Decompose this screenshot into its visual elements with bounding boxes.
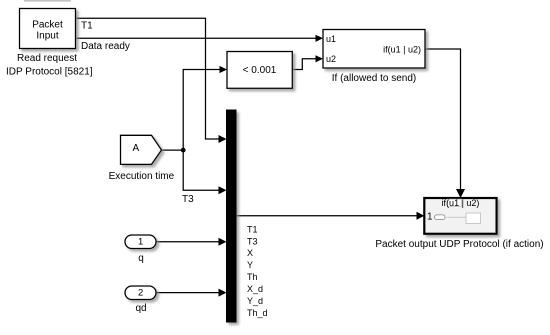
svg-text:Packet output UDP Protocol (if: Packet output UDP Protocol (if action) [375,239,543,250]
svg-text:Y_d: Y_d [247,296,263,306]
svg-text:if(u1 | u2): if(u1 | u2) [442,198,480,208]
svg-text:T3: T3 [247,236,258,246]
svg-text:Execution time: Execution time [109,171,175,182]
svg-text:T1: T1 [247,224,258,234]
svg-text:q: q [138,253,144,264]
svg-text:u2: u2 [326,54,336,64]
svg-text:Input: Input [36,31,58,42]
svg-text:A: A [132,143,139,154]
svg-text:1: 1 [138,237,143,248]
svg-text:Read request: Read request [17,53,77,64]
svg-text:< 0.001: < 0.001 [243,65,277,76]
svg-text:T3: T3 [182,194,194,205]
svg-text:if(u1 | u2): if(u1 | u2) [383,45,421,55]
svg-text:X: X [247,248,253,258]
svg-text:IDP Protocol [5821]: IDP Protocol [5821] [6,66,93,77]
svg-text:qd: qd [135,303,146,314]
svg-text:Th: Th [247,272,258,282]
svg-text:u1: u1 [326,34,336,44]
svg-text:2: 2 [138,288,143,299]
svg-text:Y: Y [247,260,253,270]
svg-text:Packet: Packet [32,20,63,31]
svg-text:T1: T1 [81,21,93,32]
svg-text:Th_d: Th_d [247,308,268,318]
svg-text:Data ready: Data ready [81,41,130,52]
svg-text:1: 1 [427,211,433,222]
svg-text:If (allowed to send): If (allowed to send) [332,73,417,84]
svg-text:X_d: X_d [247,284,263,294]
